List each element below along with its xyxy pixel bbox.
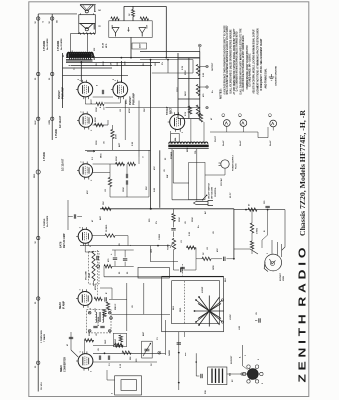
- svg-text:500K: 500K: [179, 217, 181, 222]
- svg-text:8: 8: [97, 85, 99, 86]
- resistor right col RB: [250, 223, 253, 233]
- wire bus Y209.6 right branch: [234, 209, 285, 211]
- svg-text:10 MEG: 10 MEG: [106, 224, 108, 232]
- components row small caps: [98, 356, 100, 360]
- volume arrow: [95, 265, 97, 267]
- resistor ladder R1: [196, 65, 199, 76]
- resistor osc: [115, 343, 123, 346]
- wire heater links: [93, 96, 113, 98]
- wire jack feed: [150, 246, 178, 262]
- svg-text:CHASSIS GROUND: CHASSIS GROUND: [275, 66, 278, 86]
- wire vertical X166 mid: [172, 150, 174, 183]
- resistor AF screen vertical: [111, 130, 114, 139]
- resistor right col RC: [250, 241, 253, 249]
- svg-text:RED: RED: [180, 307, 182, 312]
- resistor tone horizontal: [187, 246, 196, 249]
- AC line plug: [208, 201, 213, 206]
- svg-text:Z E N I T H R A D I O: Z E N I T H R A D I O: [297, 248, 309, 383]
- capacitor mid bus: [223, 257, 225, 261]
- svg-text:SOCKET: SOCKET: [231, 355, 233, 364]
- wire ladder rung Y78.6: [178, 78, 200, 80]
- svg-text:47K: 47K: [216, 248, 219, 252]
- speaker SP2 voice coil: [85, 28, 88, 31]
- svg-text:470K: 470K: [115, 134, 118, 139]
- svg-text:3: 3: [78, 79, 80, 80]
- capacitor C150: [265, 205, 269, 207]
- wire vertical X150.5: [150, 59, 152, 209]
- speaker SP1 voice coil: [85, 10, 88, 13]
- box wavemagnet inner: [121, 380, 137, 391]
- tube V3b 1/2 12AX7: [79, 164, 93, 178]
- svg-text:GANG: GANG: [168, 350, 171, 356]
- power transformer T4 winding hump: [169, 142, 208, 144]
- svg-text:5: 5: [90, 308, 92, 309]
- wire pilot lamp bus: [210, 131, 258, 133]
- svg-text:220K: 220K: [116, 156, 118, 161]
- wire X125 vertical: [124, 101, 126, 141]
- svg-text:6AT6: 6AT6: [58, 241, 62, 248]
- svg-text:245V: 245V: [184, 91, 187, 96]
- power transformer T4 core bar: [168, 145, 208, 148]
- IF T1 trimmer caps: [93, 325, 97, 327]
- wire to wavemagnet: [107, 370, 115, 380]
- wire right branch drop X285: [282, 210, 286, 251]
- resistor AF cathode vertical: [108, 178, 111, 187]
- box loop antenna outer: [162, 276, 224, 331]
- svg-text:6.3V: 6.3V: [182, 65, 184, 70]
- terminal B3: [51, 117, 54, 120]
- wire X139 vertical: [138, 101, 140, 158]
- pilot lamp PL2: [240, 120, 247, 127]
- svg-text:1 TURN MIN.: 1 TURN MIN.: [41, 329, 43, 343]
- svg-text:117V AC: 117V AC: [220, 178, 223, 186]
- wire IF node: [109, 298, 127, 300]
- svg-text:CONVERTER: CONVERTER: [63, 357, 66, 372]
- terminal A2: [37, 72, 40, 75]
- speaker SP1 terminals: [94, 5, 96, 12]
- capacitor IF: [104, 297, 106, 301]
- tube V5 6V6GT #2: [113, 82, 128, 97]
- svg-text:250V: 250V: [185, 70, 187, 75]
- wire PT primary down left: [171, 149, 173, 185]
- wire ladder vertical X199.8: [199, 52, 201, 119]
- terminal A5: [37, 236, 40, 239]
- box power enclosure: [189, 162, 205, 199]
- wire loop leads: [184, 332, 186, 337]
- wire bus Y67 left: [63, 67, 113, 69]
- capacitor coupling between amps: [101, 90, 103, 94]
- wire AF bus Y150.3: [85, 149, 151, 151]
- tube V4 6V6GT #1: [78, 82, 93, 97]
- output transformer T3 winding: [67, 53, 93, 58]
- tube socket bottom view: [247, 369, 258, 380]
- wire AF stage2 net: [138, 157, 140, 164]
- svg-text:7 WAVE: 7 WAVE: [43, 333, 46, 342]
- svg-text:33K: 33K: [125, 61, 127, 65]
- svg-text:1 TURN: 1 TURN: [43, 152, 46, 161]
- wire top corner to ladder: [140, 51, 200, 53]
- IF T1 terminals: [88, 311, 91, 314]
- wire det lower net: [85, 243, 93, 252]
- wire long bus Y208.8: [100, 208, 234, 210]
- pot tone with arrow: [172, 238, 175, 249]
- socket S2 internals: [270, 259, 276, 264]
- svg-text:6.8K: 6.8K: [154, 187, 156, 192]
- capacitor det1: [96, 256, 98, 260]
- svg-text:117V: 117V: [177, 87, 179, 92]
- svg-text:5%: 5%: [156, 221, 158, 224]
- svg-text:OSC: OSC: [115, 338, 117, 343]
- svg-text:S: S: [98, 25, 102, 27]
- wire antenna lead B: [51, 14, 53, 140]
- capacitor tone2: [180, 268, 182, 272]
- svg-text:5: 5: [182, 132, 184, 133]
- box jack outline: [138, 267, 169, 278]
- wire osc right vertical: [165, 320, 167, 355]
- resistor AF plate: [95, 123, 104, 126]
- svg-text:SW: SW: [167, 175, 169, 178]
- wire 6BE6 grid lead: [70, 332, 72, 350]
- terminal B1: [51, 17, 54, 20]
- IF T1 coil primary: [96, 312, 97, 322]
- 2nd IF components: [106, 302, 109, 310]
- svg-text:No.18 WIRE: No.18 WIRE: [47, 215, 49, 227]
- box volume dashed: [89, 252, 100, 285]
- trimmer cap C2 box: [142, 341, 153, 358]
- svg-text:1/2 12AX7: 1/2 12AX7: [58, 115, 62, 128]
- wire IF unit to socket: [227, 373, 247, 375]
- loop antenna winding fan: [196, 300, 223, 322]
- wire drop X124: [123, 6, 125, 20]
- svg-text:E: E: [98, 9, 102, 11]
- svg-text:LOOP: LOOP: [202, 286, 204, 293]
- svg-text:1/2 12AX7: 1/2 12AX7: [60, 158, 64, 171]
- svg-text:3/16: 3/16: [205, 390, 207, 394]
- svg-text:5Y3GT: 5Y3GT: [165, 106, 169, 115]
- capacitor AF coupling2: [125, 180, 127, 184]
- wire bus Y73: [152, 72, 193, 74]
- terminal A4: [36, 170, 40, 174]
- svg-text:AND TUNING DIAL: AND TUNING DIAL: [264, 68, 268, 88]
- wire tp stubs: [200, 66, 206, 68]
- svg-text:3: 3: [80, 289, 82, 290]
- svg-text:3: 3: [80, 351, 82, 352]
- wire vertical X233.9: [233, 209, 235, 259]
- speaker frame box: [79, 15, 96, 24]
- svg-text:3.3K: 3.3K: [132, 141, 134, 146]
- IF T1 coil secondary: [103, 312, 104, 322]
- svg-text:47K: 47K: [86, 190, 89, 194]
- resistor top-right in can: [140, 17, 149, 20]
- volume pot: [92, 251, 95, 281]
- pilot lamp PL3: [270, 120, 277, 127]
- loop fan terminal circles: [221, 299, 223, 301]
- wire drops bus-box: [167, 60, 169, 73]
- volume dashed link: [96, 250, 98, 296]
- wire X126.8 vertical: [126, 283, 128, 331]
- power transformer T4 lower line: [168, 148, 208, 150]
- wire top link to speakers: [38, 13, 77, 15]
- capacitor tone: [171, 228, 175, 230]
- resistor top-left in can: [111, 17, 119, 20]
- svg-text:LUG: LUG: [239, 325, 241, 330]
- svg-text:5%: 5%: [162, 62, 164, 65]
- wire switch leads: [171, 185, 173, 200]
- svg-text:3: 3: [80, 80, 82, 81]
- wire AVC vertical: [67, 200, 69, 230]
- wire osc to IF unit: [195, 353, 197, 376]
- svg-text:6BA6: 6BA6: [58, 302, 62, 309]
- wire bus Y65.6: [71, 65, 153, 67]
- wire B+ bus Y57.6: [66, 57, 199, 59]
- svg-text:3 TURNS: 3 TURNS: [57, 40, 60, 51]
- oscillator box: [113, 333, 126, 346]
- resistor tone vertical: [172, 214, 175, 222]
- capacitor electrolytic det: [113, 257, 117, 259]
- capacitor on loop lead: [177, 342, 181, 344]
- svg-text:10K: 10K: [144, 108, 146, 112]
- box loop antenna inner: [172, 281, 220, 324]
- capacitor AVC line: [73, 214, 75, 218]
- wire mid bus: [196, 258, 202, 260]
- wire top feedback Y6.4: [124, 5, 166, 7]
- svg-text:1 MEG: 1 MEG: [159, 233, 161, 240]
- svg-text:CU 3/16: CU 3/16: [41, 382, 43, 390]
- svg-text:SOCKET: SOCKET: [280, 272, 282, 281]
- svg-text:60 CY: 60 CY: [230, 192, 232, 198]
- wire bus Y59.6 right: [140, 59, 193, 61]
- svg-text:AVC: AVC: [99, 215, 102, 220]
- capacitor det2: [123, 258, 127, 260]
- arrow in can: [128, 27, 130, 32]
- wire tone net: [173, 209, 175, 214]
- svg-text:3: 3: [80, 162, 82, 163]
- svg-text:BRN: BRN: [94, 55, 96, 60]
- ground symbol in notes: [271, 74, 273, 77]
- svg-text:No.47: No.47: [269, 140, 272, 146]
- svg-text:5: 5: [90, 99, 92, 100]
- svg-text:MEG: MEG: [101, 153, 103, 158]
- wire 2nd IF links: [100, 287, 112, 289]
- wire amp cathodes down: [84, 97, 86, 104]
- junction dots on buses: [80, 62, 82, 64]
- wire bus left drop: [62, 53, 64, 108]
- svg-text:RED: RED: [34, 173, 36, 178]
- svg-text:CONTROL: CONTROL: [215, 186, 217, 197]
- resistor ladder R2: [196, 85, 199, 96]
- wire ladder rung Y118.5: [178, 118, 200, 120]
- svg-text:C2: C2: [151, 364, 153, 366]
- wire conv net: [84, 339, 94, 341]
- terminal A1: [37, 17, 40, 20]
- svg-text:BLU: BLU: [173, 305, 175, 310]
- resistor near rect 2: [199, 113, 202, 122]
- box output trans label: [132, 43, 147, 49]
- resistor conv vertical: [119, 335, 122, 342]
- wire ladder rung Y99: [178, 98, 200, 100]
- svg-text:ON VOLUME: ON VOLUME: [212, 186, 214, 199]
- svg-text:500K: 500K: [192, 217, 194, 222]
- speaker SP2 marks: [93, 23, 95, 30]
- terminal B2: [51, 72, 54, 75]
- svg-text:BRN: BRN: [187, 147, 189, 152]
- svg-text:VOLUME: VOLUME: [86, 270, 88, 280]
- junction circle volume: [97, 265, 100, 268]
- svg-text:2 TURNS: 2 TURNS: [44, 218, 46, 228]
- svg-text:250K: 250K: [89, 273, 91, 278]
- wire X143.8 vertical: [143, 283, 145, 314]
- svg-text:47: 47: [66, 344, 69, 346]
- wire det bus Y245.6: [80, 245, 171, 247]
- wire PT leads up: [170, 131, 172, 144]
- tube V1 6BE6 converter: [78, 354, 93, 369]
- svg-text:VIEW: VIEW: [283, 276, 285, 281]
- svg-text:6V6GT: 6V6GT: [128, 96, 132, 105]
- svg-text:.05: .05: [98, 348, 100, 351]
- svg-text:No.47: No.47: [222, 140, 225, 146]
- switch symbol: [203, 196, 207, 200]
- svg-text:PLUG: PLUG: [236, 163, 238, 169]
- svg-text:POWER: POWER: [171, 151, 173, 159]
- svg-text:3: 3: [80, 112, 82, 113]
- svg-text:OUTPUT: OUTPUT: [212, 62, 214, 71]
- svg-text:2.2K: 2.2K: [189, 231, 191, 236]
- svg-text:No.20 WIRE: No.20 WIRE: [61, 38, 63, 50]
- pilot lamp PL1: [223, 120, 230, 127]
- junction loop lead: [178, 352, 180, 354]
- IF T1 core lines: [98, 312, 100, 322]
- tube V1b 6BA6 IF: [78, 292, 92, 306]
- wire AF nodes: [93, 124, 108, 126]
- svg-text:512: 512: [94, 48, 96, 51]
- wire osc bus Y362: [93, 361, 157, 363]
- wire cap drop: [267, 209, 269, 235]
- wire bus Y62.5: [66, 62, 160, 64]
- wire IF T1 out: [111, 313, 170, 315]
- tube V2 6AT6: [78, 229, 92, 243]
- svg-text:5: 5: [91, 130, 93, 131]
- box IF unit physical: [208, 367, 227, 385]
- box selenium rect: [171, 134, 180, 143]
- capacitor electrolytic C-can1: [112, 28, 119, 34]
- svg-text:56K: 56K: [147, 24, 149, 28]
- resistor on bus Y208.8: [102, 207, 111, 210]
- wire plug drop: [224, 168, 226, 175]
- svg-text:220K: 220K: [95, 117, 97, 122]
- speaker SP1 cone: [80, 5, 94, 11]
- svg-text:DET AF AMP: DET AF AMP: [63, 233, 66, 248]
- svg-text:IF AMP: IF AMP: [62, 301, 65, 309]
- svg-text:BLK: BLK: [35, 120, 37, 125]
- svg-text:No.47: No.47: [239, 140, 242, 146]
- box IF transformer T1 dashed: [87, 310, 112, 333]
- capacitor at IF unit: [200, 374, 202, 378]
- svg-text:3: 3: [80, 227, 82, 228]
- box wavemagnet outer: [115, 376, 142, 395]
- wire osc bus Y353.3: [93, 352, 161, 354]
- resistor efter volume: [104, 265, 112, 268]
- wire antenna lead A: [37, 14, 39, 392]
- wire speaker rails down: [78, 24, 80, 34]
- resistor ladder R3: [196, 105, 199, 116]
- resistor det plate: [105, 234, 115, 237]
- svg-text:TONE: TONE: [168, 244, 170, 250]
- wire plate leads to tubes: [80, 61, 82, 82]
- terminal ladder top: [198, 44, 201, 47]
- svg-text:470K: 470K: [102, 61, 105, 66]
- wire can to bus: [130, 37, 132, 57]
- svg-text:2ND IF: 2ND IF: [115, 303, 117, 310]
- svg-text:Chassis 7Z20, Models HF774E, -: Chassis 7Z20, Models HF774E, -H, -R: [298, 109, 307, 236]
- svg-text:6V6GT: 6V6GT: [57, 90, 61, 99]
- test point TP2: [206, 86, 209, 89]
- wire S2 leads top: [271, 240, 273, 254]
- svg-text:LOOP: LOOP: [230, 314, 232, 320]
- resistor mid bus: [202, 257, 211, 260]
- trimmer arrow C2: [143, 343, 151, 356]
- wire vertical X159.8: [159, 150, 161, 208]
- svg-text:150K: 150K: [96, 107, 98, 112]
- svg-text:POWER SUPPLY: POWER SUPPLY: [233, 154, 235, 171]
- svg-text:PWR AMP: PWR AMP: [132, 93, 135, 105]
- svg-text:9.5V: 9.5V: [185, 111, 187, 116]
- test point TP3: [206, 106, 209, 109]
- resistor amp cathode: [96, 102, 104, 105]
- tube V6 5Y3GT rectifier: [170, 115, 185, 130]
- svg-text:10K: 10K: [103, 201, 105, 205]
- resistor mid2: [128, 162, 136, 165]
- resistor IF plate: [94, 297, 102, 300]
- svg-text:450V: 450V: [139, 43, 142, 48]
- svg-text:1 TURN: 1 TURN: [55, 129, 58, 138]
- svg-text:BLK: BLK: [225, 277, 227, 282]
- wire socket lead up: [241, 345, 243, 366]
- speaker bottom rail: [78, 33, 96, 35]
- wire right vertical X166.5: [165, 6, 167, 57]
- svg-text:1 MEG: 1 MEG: [257, 227, 259, 234]
- test point TP1: [206, 65, 209, 68]
- svg-text:.05: .05: [256, 312, 258, 315]
- resistor on osc bus: [122, 351, 131, 354]
- svg-text:5: 5: [90, 246, 92, 247]
- box filter can outline: [109, 21, 152, 38]
- svg-text:455: 455: [229, 373, 232, 376]
- svg-text:PWR AMP: PWR AMP: [61, 87, 64, 99]
- loop fan terminals: [195, 299, 197, 301]
- svg-text:22K: 22K: [89, 332, 91, 336]
- wire dashed AVC: [182, 264, 184, 276]
- wire drop X133: [132, 6, 134, 9]
- svg-text:GRN: GRN: [213, 265, 215, 270]
- svg-text:2.2K: 2.2K: [203, 72, 205, 77]
- svg-text:22K: 22K: [146, 186, 148, 190]
- capacitor 6BE6 grid: [69, 336, 73, 338]
- terminal A6: [37, 297, 40, 300]
- junction bus: [150, 208, 152, 210]
- svg-text:IF TRANS: IF TRANS: [97, 316, 100, 326]
- svg-text:No.20 WIRE: No.20 WIRE: [47, 38, 49, 50]
- output transformer T3 core: [66, 59, 93, 61]
- resistor 220K mid: [116, 162, 125, 165]
- wire volume bottom: [93, 281, 95, 286]
- wire bus Y75.3: [63, 74, 129, 76]
- loop core dashed: [183, 281, 185, 324]
- wire det node: [92, 235, 105, 237]
- resistor conv grid: [85, 339, 94, 342]
- capacitor electrolytic C-can2: [139, 28, 146, 34]
- wire X149 vertical lower: [148, 150, 150, 197]
- svg-text:455KC: 455KC: [94, 283, 97, 290]
